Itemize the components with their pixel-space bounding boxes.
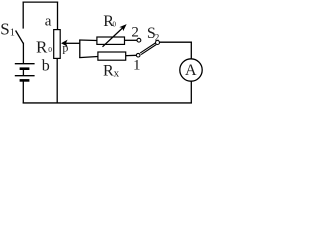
svg-text:R: R [36,38,48,57]
switch S1 lever [16,31,24,44]
wire pivot to ammeter corner [160,41,192,43]
wiper arrow of potentiometer [65,42,80,44]
svg-text:0: 0 [48,45,52,54]
wire pot bottom lead [56,58,58,103]
svg-text:A: A [185,62,197,79]
svg-text:0: 0 [113,21,117,29]
wire bottom rail [23,102,192,104]
svg-text:2: 2 [155,32,160,42]
wire junction vertical (wiper node) [79,40,81,58]
wire Rx to contact 1 [126,54,137,56]
svg-text:b: b [42,57,50,74]
wire ammeter bottom lead [190,81,192,103]
contact 2 circle [137,38,141,42]
resistor Rx body [98,52,126,60]
svg-text:2: 2 [131,25,139,41]
svg-text:x: x [114,68,120,80]
switch S2 lever (double line) [140,43,155,53]
battery cell 2 short plate [20,79,30,82]
wire Rs to contact 2 [125,39,138,41]
battery cell 1 long plate [15,63,35,65]
svg-text:R: R [103,63,114,80]
wire between battery cells [22,69,24,75]
switch S2 pivot circle [156,41,160,45]
wire left rail lower [22,43,24,64]
wire left rail upper [22,2,24,29]
rheostat Rs arrow [103,28,123,47]
wire ammeter top lead [190,42,192,59]
wire to Rs (top branch) [79,39,97,42]
wire top rail [23,1,59,3]
rheostat Rs body [97,37,125,44]
wire battery to bottom rail [22,81,24,103]
wire to Rx (bottom branch) [79,57,98,58]
wire pot top lead [57,2,59,30]
potentiometer R0 body [54,30,61,59]
svg-text:1: 1 [133,57,141,73]
svg-text:a: a [45,14,52,30]
contact 1 circle [136,53,140,57]
svg-text:1: 1 [10,27,15,38]
battery cell 2 long plate [15,75,35,77]
ammeter A [180,59,202,81]
svg-text:p: p [62,41,68,55]
battery cell 1 short plate [20,67,30,70]
svg-text:S: S [0,19,9,38]
